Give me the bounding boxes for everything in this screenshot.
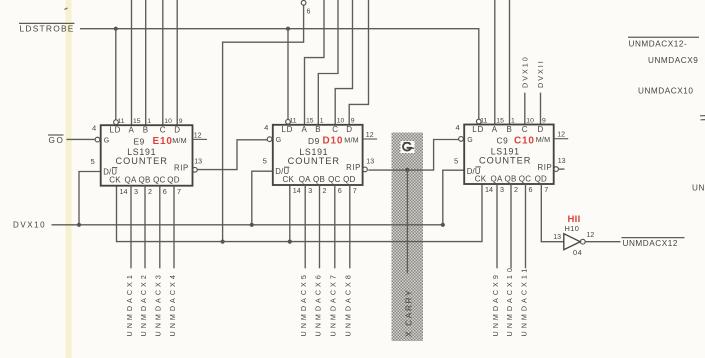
svg-text:15: 15 xyxy=(306,118,314,125)
svg-text:M/M: M/M xyxy=(172,136,187,145)
svg-text:QC: QC xyxy=(153,175,165,184)
XCARRY highlight band xyxy=(392,133,424,342)
svg-text:QD: QD xyxy=(535,175,547,184)
svg-text:M/M: M/M xyxy=(344,135,359,144)
wire E9 D/U riser xyxy=(79,172,101,225)
junction DVX10/D9 xyxy=(250,223,254,227)
wire D9 input A (staircase) xyxy=(305,0,325,125)
junction LDSTROBE/E9.LD xyxy=(114,27,118,31)
svg-text:QC: QC xyxy=(328,175,340,184)
svg-text:11: 11 xyxy=(480,117,487,124)
svg-text:11: 11 xyxy=(118,118,125,125)
svg-text:7: 7 xyxy=(544,185,548,194)
svg-text:A: A xyxy=(129,126,135,135)
svg-text:M/M: M/M xyxy=(536,135,551,144)
svg-text:D: D xyxy=(346,125,352,134)
svg-text:04: 04 xyxy=(573,248,582,257)
svg-text:UNMDACX5: UNMDACX5 xyxy=(299,272,308,336)
wire output UNMDACX1 xyxy=(130,186,132,269)
label LDSTROBE xyxy=(19,23,75,33)
wire D9 input B (staircase) xyxy=(318,0,338,125)
wire GO to E9.G xyxy=(67,138,96,140)
wire output UNMDACX4 xyxy=(173,186,175,269)
svg-text:2: 2 xyxy=(323,186,327,195)
wire D9 input C (staircase) xyxy=(335,0,352,125)
wire E9 input D xyxy=(176,0,178,125)
svg-text:CK: CK xyxy=(109,175,121,184)
svg-text:10: 10 xyxy=(164,118,172,125)
svg-text:13: 13 xyxy=(366,158,374,165)
svg-text:E9: E9 xyxy=(134,136,145,146)
svg-text:15: 15 xyxy=(133,118,141,125)
label UNMDACX12 (output, active low) xyxy=(622,238,685,248)
svg-text:QB: QB xyxy=(139,175,151,184)
svg-text:UNMDACX11: UNMDACX11 xyxy=(519,266,528,337)
wire D9 CK drop xyxy=(289,185,291,242)
svg-text:QA: QA xyxy=(125,175,137,184)
wire LD riser E9 xyxy=(115,29,117,120)
svg-text:1: 1 xyxy=(147,118,151,125)
svg-text:UNMDACX12-: UNMDACX12- xyxy=(629,39,688,48)
svg-text:6: 6 xyxy=(163,187,167,196)
svg-text:LD: LD xyxy=(110,126,122,135)
svg-text:UNMDACX12: UNMDACX12 xyxy=(623,239,678,248)
wire D9.RIP to C9.G xyxy=(368,140,458,171)
svg-text:5: 5 xyxy=(454,156,458,165)
svg-text:UNMDACX8: UNMDACX8 xyxy=(344,272,353,336)
svg-text:3: 3 xyxy=(308,186,312,195)
svg-text:7: 7 xyxy=(177,187,181,196)
svg-text:UNMDACX9: UNMDACX9 xyxy=(648,56,698,65)
svg-text:D9: D9 xyxy=(308,136,320,146)
svg-text:12: 12 xyxy=(366,132,374,139)
svg-text:13: 13 xyxy=(558,158,566,165)
svg-text:D: D xyxy=(174,126,180,135)
junction DVX10/C9 xyxy=(441,223,445,227)
svg-text:QA: QA xyxy=(299,175,311,184)
svg-text:C: C xyxy=(160,126,166,135)
svg-text:UNMDACX2: UNMDACX2 xyxy=(139,272,148,336)
svg-text:4: 4 xyxy=(92,124,96,133)
svg-text:LD: LD xyxy=(472,125,484,134)
svg-text:4: 4 xyxy=(456,123,460,132)
svg-text:13: 13 xyxy=(553,234,561,241)
terminal pin 6 (clock from above) xyxy=(301,0,310,15)
svg-text:6: 6 xyxy=(307,9,311,16)
svg-text:14: 14 xyxy=(120,187,128,196)
svg-text:HII: HII xyxy=(568,214,581,225)
svg-text:CK: CK xyxy=(283,175,295,184)
wire output UNMDACX2 xyxy=(144,186,146,269)
svg-text:13: 13 xyxy=(194,159,202,166)
wire C9 input D stub xyxy=(540,93,542,125)
wire output UNMDACX10 xyxy=(510,184,512,268)
wire D9 input D (staircase) xyxy=(349,0,368,125)
wire LD riser D9 xyxy=(287,29,289,120)
svg-text:C: C xyxy=(332,125,338,134)
svg-text:D10: D10 xyxy=(323,136,344,147)
wire C9 input C stub xyxy=(524,93,526,125)
svg-text:12: 12 xyxy=(194,132,202,139)
scan margin strip xyxy=(66,0,72,358)
junction LDSTROBE/D9.LD xyxy=(286,27,290,31)
svg-text:QB: QB xyxy=(313,175,325,184)
svg-text:5: 5 xyxy=(263,157,267,166)
junction DVX10/E9 xyxy=(77,223,81,227)
svg-text:11: 11 xyxy=(290,118,297,125)
wire output UNMDACX9 xyxy=(496,184,498,268)
svg-text:QA: QA xyxy=(491,175,503,184)
wire E9 input C xyxy=(162,0,164,125)
label UNMDACX12- (top right, active low) xyxy=(628,37,699,48)
svg-text:CK: CK xyxy=(475,175,487,184)
svg-text:A: A xyxy=(302,125,308,134)
svg-text:LD: LD xyxy=(282,125,294,134)
svg-text:5: 5 xyxy=(91,157,95,166)
svg-text:A: A xyxy=(492,125,498,134)
svg-text:X CARRY: X CARRY xyxy=(403,289,413,337)
svg-text:2: 2 xyxy=(148,187,152,196)
svg-text:3: 3 xyxy=(500,185,504,194)
wire output UNMDACX8 xyxy=(349,185,351,268)
svg-text:UNMDACX9: UNMDACX9 xyxy=(491,272,500,336)
svg-text:6: 6 xyxy=(338,186,342,195)
junction XCARRY tap xyxy=(405,168,409,172)
wire output UNMDACX5 xyxy=(304,185,306,268)
label GO (active low) xyxy=(48,135,64,145)
svg-text:2: 2 xyxy=(514,185,518,194)
svg-text:9: 9 xyxy=(351,118,355,125)
svg-text:B: B xyxy=(143,126,148,135)
svg-text:C: C xyxy=(522,125,528,134)
svg-text:G: G xyxy=(104,138,109,145)
wire output UNMDACX7 xyxy=(334,185,336,268)
wire output UNMDACX6 xyxy=(319,185,321,268)
svg-text:E10: E10 xyxy=(153,136,173,147)
svg-text:3: 3 xyxy=(134,187,138,196)
svg-text:DVX10: DVX10 xyxy=(520,55,529,88)
svg-text:7: 7 xyxy=(353,186,357,195)
svg-text:4: 4 xyxy=(264,123,268,132)
svg-text:12: 12 xyxy=(557,132,565,139)
G revision flag box xyxy=(401,141,415,153)
stray mark xyxy=(65,8,68,10)
svg-text:UN: UN xyxy=(692,184,705,193)
svg-text:UNMDACX10: UNMDACX10 xyxy=(638,86,693,95)
svg-text:RIP: RIP xyxy=(174,164,189,173)
svg-text:COUNTER: COUNTER xyxy=(479,156,531,166)
wire C9 D/U riser xyxy=(443,170,464,225)
svg-text:QC: QC xyxy=(519,175,531,184)
svg-text:GO: GO xyxy=(49,136,65,145)
svg-text:COUNTER: COUNTER xyxy=(115,156,167,166)
svg-text:1: 1 xyxy=(320,118,324,125)
svg-text:COUNTER: COUNTER xyxy=(288,156,340,166)
svg-text:14: 14 xyxy=(293,186,301,195)
svg-text:UNMDACX1: UNMDACX1 xyxy=(125,272,134,336)
wire C9.RIP stub xyxy=(559,168,565,170)
svg-text:6: 6 xyxy=(529,185,533,194)
wire DVX10 bus xyxy=(52,224,443,226)
svg-text:RIP: RIP xyxy=(538,163,553,172)
wire C9 input A xyxy=(494,0,496,125)
svg-text:QD: QD xyxy=(167,175,179,184)
junction clock feed / CK bus xyxy=(221,240,225,244)
wire C9.QD to inverter H10 xyxy=(541,184,563,242)
svg-text:10: 10 xyxy=(526,117,534,124)
svg-text:15: 15 xyxy=(496,117,504,124)
svg-text:QB: QB xyxy=(505,175,517,184)
svg-text:UNMDACX6: UNMDACX6 xyxy=(313,272,322,336)
svg-text:G: G xyxy=(467,137,472,144)
svg-text:H10: H10 xyxy=(565,224,580,233)
svg-text:UNMDACX3: UNMDACX3 xyxy=(154,272,163,336)
svg-text:14: 14 xyxy=(485,185,493,194)
svg-text:DVX10: DVX10 xyxy=(13,221,46,230)
wire E9 input A xyxy=(131,0,133,125)
svg-text:12: 12 xyxy=(587,232,595,239)
counter C9/C10 (LS191) xyxy=(454,117,568,194)
wire clock feed down to CK bus xyxy=(223,5,304,241)
wire output UNMDACX3 xyxy=(159,186,161,269)
svg-text:UNMDACX7: UNMDACX7 xyxy=(329,272,338,336)
wire XCARRY drop xyxy=(406,170,408,274)
svg-text:9: 9 xyxy=(542,117,546,124)
svg-text:C9: C9 xyxy=(497,136,509,146)
svg-text:C10: C10 xyxy=(514,135,535,146)
svg-text:DVXII: DVXII xyxy=(536,59,545,88)
svg-text:B: B xyxy=(507,125,512,134)
counter E9/E10 (LS191) xyxy=(91,118,208,196)
junction CK bus/D9 xyxy=(288,240,292,244)
wire LDSTROBE net (to LD pins) xyxy=(80,29,479,119)
wire E9 input B xyxy=(145,0,147,125)
wire output UNMDACX11 xyxy=(525,184,527,268)
wire C9 input B xyxy=(509,0,511,125)
svg-text:B: B xyxy=(315,125,320,134)
svg-text:9: 9 xyxy=(179,118,183,125)
node mark (cut off at edge) xyxy=(700,115,705,117)
counter D9/D10 (LS191) xyxy=(263,118,378,196)
wire E9.RIP to D9.G xyxy=(197,140,267,170)
svg-text:D: D xyxy=(538,125,544,134)
svg-text:UNMDACX10: UNMDACX10 xyxy=(505,265,514,336)
wire H10 output xyxy=(585,241,620,243)
inverter H10 (04) xyxy=(553,224,594,257)
svg-text:10: 10 xyxy=(337,118,345,125)
svg-text:1: 1 xyxy=(511,117,515,124)
wire D9 D/U riser xyxy=(252,171,273,225)
svg-text:QD: QD xyxy=(343,175,355,184)
svg-text:G: G xyxy=(276,137,281,144)
svg-text:UNMDACX4: UNMDACX4 xyxy=(168,272,177,336)
svg-text:RIP: RIP xyxy=(346,163,361,172)
svg-text:LDSTROBE: LDSTROBE xyxy=(20,23,75,33)
wire CK bus (E9.CK to C9.CK) xyxy=(117,184,483,242)
